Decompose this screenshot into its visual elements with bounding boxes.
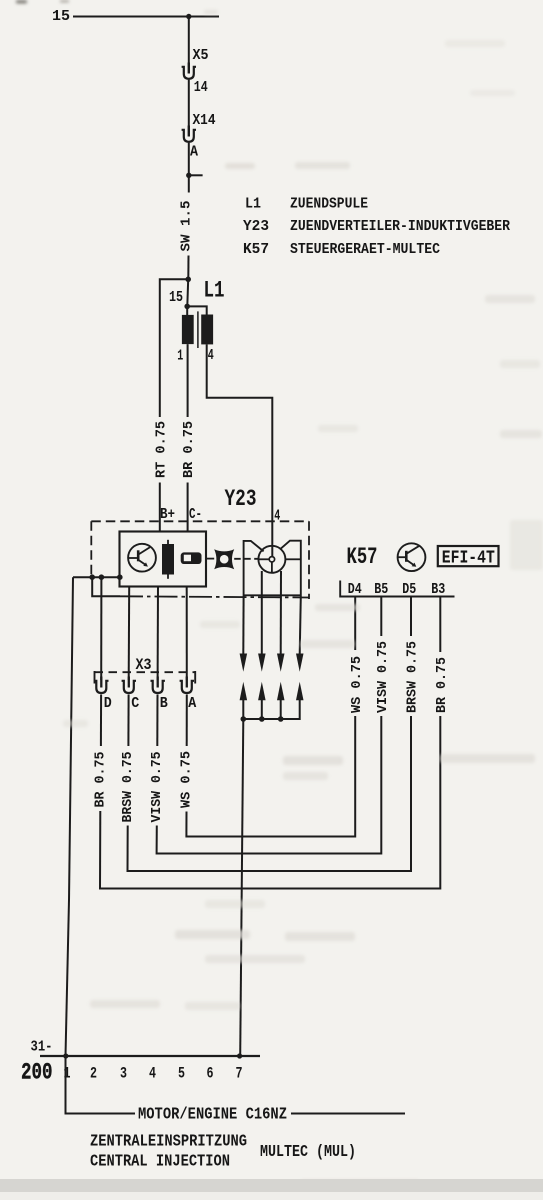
svg-text:7: 7 [236,1065,243,1083]
svg-text:A: A [190,145,198,161]
connector X3 rail [95,671,196,684]
node spark bus dot 1 [241,716,247,722]
svg-text:K57: K57 [347,544,378,570]
arrow up 4 [296,682,304,700]
wire housing ground jog [92,577,120,596]
svg-text:WS 0.75: WS 0.75 [349,656,365,713]
connector X3 label [136,656,152,674]
distributor crown shape [244,541,301,596]
pin B+ label [160,507,175,523]
terminal 7 label [236,1065,243,1083]
coil L1 secondary winding bar [201,315,213,345]
legend Y23 row [243,218,510,235]
connector X3 pin C [122,677,136,694]
svg-text:ZUENDSPULE: ZUENDSPULE [290,196,368,213]
transistor Q inside Y23 [128,544,156,572]
svg-text:15: 15 [169,290,183,306]
svg-text:Y23: Y23 [225,486,257,512]
wire engine bracket [66,1056,136,1114]
connector X3 pin A [180,677,194,694]
wire X3-C upper stub [127,695,129,747]
wire WS to K57 D4 [186,716,355,837]
wire left junction bus [73,576,120,578]
svg-text:BRSW 0.75: BRSW 0.75 [120,752,136,823]
wire BRSW to K57 D5 [128,716,412,871]
svg-text:D5: D5 [402,582,416,598]
svg-text:L1: L1 [245,196,261,213]
wire X14 down to junction [188,143,190,193]
node bus dot t7 [237,1053,242,1058]
arrow down 3 [277,654,285,672]
svg-text:14: 14 [194,80,208,96]
svg-text:MULTEC (MUL): MULTEC (MUL) [260,1143,356,1162]
arrow up 3 [277,682,285,700]
svg-text:EFI-4T: EFI-4T [442,548,495,568]
wire from 15 bus down to X5 [188,17,190,68]
svg-text:D: D [104,696,112,712]
svg-text:5: 5 [178,1065,185,1083]
pin D5 label [402,582,416,598]
wire label WS 0.75 left [179,751,195,808]
connector plug symbol inside Y23 [181,552,202,564]
pin B3 label [431,582,445,598]
svg-text:CENTRAL INJECTION: CENTRAL INJECTION [90,1153,230,1172]
wire label BR 0.75 [181,421,197,478]
svg-text:BR 0.75: BR 0.75 [93,752,109,808]
op label K57 [347,544,378,570]
terminal 4 label [149,1065,156,1083]
ground bus 31 [40,1055,260,1057]
pin 15 label of coil [169,290,183,306]
wire spark 4 down [300,596,301,655]
wire below SW label to coil junction [187,256,189,280]
K57 connector rail [340,581,454,597]
op label Y23 [225,486,257,512]
terminal 5 label [178,1065,185,1083]
svg-text:VISW 0.75: VISW 0.75 [375,641,391,713]
svg-text:RT 0.75: RT 0.75 [154,421,170,478]
svg-text:C: C [131,696,139,712]
connector X14 label [193,113,216,129]
arrow up 2 [258,682,266,700]
svg-text:B5: B5 [374,582,388,598]
connector X5 [182,63,196,79]
wire label VISW 0.75 left [149,752,165,823]
svg-text:2: 2 [90,1065,97,1083]
bottom scan band [0,1179,543,1200]
svg-text:4: 4 [208,348,214,364]
svg-text:X14: X14 [193,113,216,129]
node 15 label [52,9,70,25]
arrow up 1 [240,682,248,700]
pin A label [188,696,196,712]
pin B label [160,696,168,712]
pin 1 label [177,349,183,365]
svg-text:3: 3 [120,1065,127,1083]
arrow down 1 [240,654,248,672]
wire K57 B3 stub [439,597,441,653]
pin A label [190,145,198,161]
svg-text:200: 200 [21,1060,53,1087]
svg-text:L1: L1 [204,278,225,304]
wire Y23 to X3 pin B [157,586,159,680]
engine label MOTOR/ENGINE C16NZ [138,1106,287,1125]
wire spark to terminal 7 [240,719,243,1056]
node coil winding junction [184,304,190,310]
coil L1 core line [197,311,199,348]
connector X14 [182,126,196,142]
pin D label [104,696,112,712]
wire K57 D5 stub [410,597,412,637]
wire RT into Y23 box pin B+ [159,483,161,532]
caption ZENTRALEINSPRITZUNG [90,1133,247,1152]
wire label BRSW 0.75 right [405,641,421,713]
wire X3-D upper stub [100,695,102,747]
Y23 inner module box [120,532,207,587]
wire label RT 0.75 [154,421,170,478]
svg-text:ZUENDVERTEILER-INDUKTIVGEBER: ZUENDVERTEILER-INDUKTIVGEBER [290,218,510,235]
svg-text:BR 0.75: BR 0.75 [434,657,450,713]
wire Y23 to X3 pin D [100,577,102,680]
wire spark 3 down [280,571,282,655]
wire X5 to X14 [188,80,190,130]
wire spark returns to bus [243,700,299,720]
op label L1 coil [204,278,225,304]
terminal 2 label [90,1065,97,1083]
node junction dot on box edge [117,574,123,580]
svg-text:A: A [188,696,196,712]
wire label WS 0.75 right [349,656,365,713]
connector X5 label [193,48,209,64]
svg-text:ZENTRALEINSPRITZUNG: ZENTRALEINSPRITZUNG [90,1133,247,1152]
wire branch left to RT wire [160,279,188,417]
svg-text:SW 1.5: SW 1.5 [179,201,195,252]
inductive pickup star symbol [214,549,234,569]
svg-text:B: B [160,696,168,712]
wire branch to secondary winding [187,306,207,314]
arrow down 2 [258,654,266,672]
mechanical link dash-dot right [234,558,258,560]
wire spark 1 down [242,596,244,655]
distributor rotor circle [258,546,300,573]
wire label VISW 0.75 right [375,641,391,713]
pin C label [131,696,139,712]
wire coil pin1 down [187,344,189,417]
legend K57 row [243,241,440,258]
svg-text:4: 4 [149,1065,156,1083]
svg-text:STEUERGERAET-MULTEC: STEUERGERAET-MULTEC [290,241,440,258]
wire label BR 0.75 right [434,657,450,713]
svg-text:VISW 0.75: VISW 0.75 [149,752,165,823]
wire K57 D4 stub [354,597,356,651]
connector X3 pin D [94,677,108,694]
node spark bus dot 3 [278,716,284,722]
svg-text:X5: X5 [193,48,209,64]
pin C- label [189,507,202,523]
wire Y23 to X3 pin C [128,586,131,680]
node coil feed junction [185,277,191,283]
coil L1 primary winding bar [182,315,194,344]
pin 4 label [208,348,214,364]
wire terminal-15 bus [73,16,219,18]
svg-text:Y23: Y23 [243,218,269,235]
wire BR into Y23 box pin C- [187,483,189,532]
svg-text:B3: B3 [431,582,445,598]
ground track 200 label [21,1060,53,1087]
node tap junction with tick [186,173,203,178]
wire into primary winding [186,306,188,315]
transistor symbol K57 [398,543,426,571]
svg-text:WS 0.75: WS 0.75 [179,751,195,808]
Y23 housing dashed box [91,521,309,599]
wire label BRSW 0.75 left [120,752,136,823]
EFI-4T box [438,546,499,568]
wire label SW 1.5 [179,201,195,252]
wire coil pin4 to distributor [207,344,273,559]
wire K57 B5 stub [380,597,382,637]
pin 4 label distributor [274,509,280,525]
pin 14 label [194,80,208,96]
pin D4 label [348,582,362,598]
wire X3-A upper stub [186,695,188,747]
wire VISW to K57 B5 [157,716,382,854]
svg-text:K57: K57 [243,241,269,258]
wire spark 2 down [261,571,263,655]
svg-text:31-: 31- [31,1040,53,1056]
svg-text:15: 15 [52,9,70,25]
node 31 label [31,1040,53,1056]
arrow down 4 [296,654,304,672]
connector X3 pin B [151,677,165,694]
wire between coil junctions [186,279,189,306]
terminal 6 label [207,1065,214,1083]
caption MULTEC (MUL) [260,1143,356,1162]
wire X3-B upper stub [156,695,158,747]
svg-text:6: 6 [207,1065,214,1083]
node junction dot B [99,574,105,580]
svg-text:BR 0.75: BR 0.75 [181,421,197,478]
svg-text:MOTOR/ENGINE C16NZ: MOTOR/ENGINE C16NZ [138,1106,287,1125]
node junction dot A [89,574,95,580]
terminal 1 label [64,1065,71,1083]
wire ground run to terminal 1 [66,577,74,1055]
svg-text:D4: D4 [348,582,362,598]
mechanical link dash-dot left [206,558,214,560]
caption CENTRAL INJECTION [90,1153,230,1172]
wire BR to K57 B3 [100,716,440,889]
node junction on 15 bus [186,14,191,19]
svg-text:BRSW 0.75: BRSW 0.75 [405,641,421,713]
svg-text:1: 1 [177,349,183,365]
pin B5 label [374,582,388,598]
terminal 3 label [120,1065,127,1083]
node bus dot t1 [63,1053,68,1058]
svg-text:4: 4 [274,509,280,525]
node spark bus dot 2 [259,716,265,722]
winding bar inside Y23 [162,540,174,579]
legend L1 row [245,196,368,213]
wire engine bracket right [291,1113,405,1115]
wire Y23 to X3 pin A [186,586,188,680]
wire label BR 0.75 left [93,752,109,808]
